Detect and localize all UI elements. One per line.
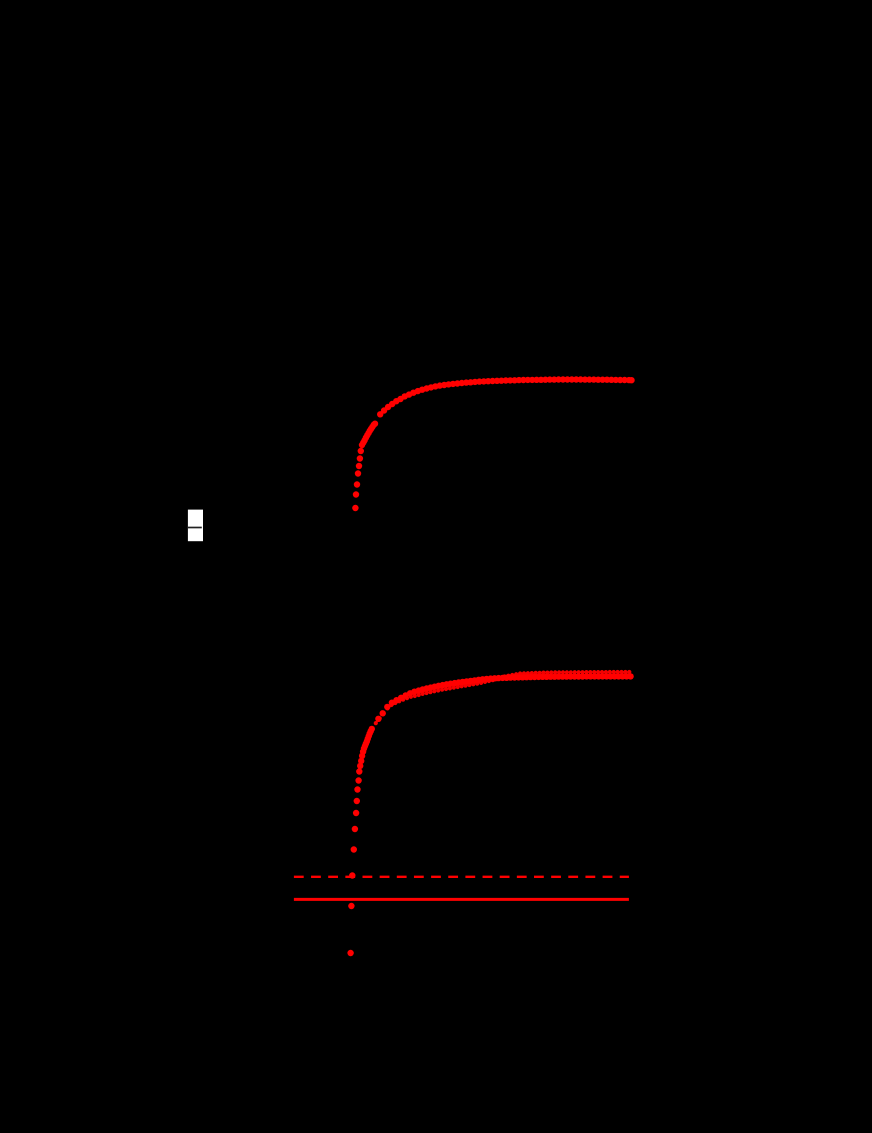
legend sample line (black) <box>188 527 202 529</box>
legend frame (white box) <box>188 510 203 542</box>
series S3: bottom panel filled red scatter curve <box>347 673 633 956</box>
solid red horizontal reference line <box>294 898 629 901</box>
series S1: top panel filled red scatter curve <box>352 376 635 511</box>
series S2: bottom panel small-dot red scatter curve <box>366 670 632 741</box>
dashed red horizontal reference line <box>294 876 629 878</box>
